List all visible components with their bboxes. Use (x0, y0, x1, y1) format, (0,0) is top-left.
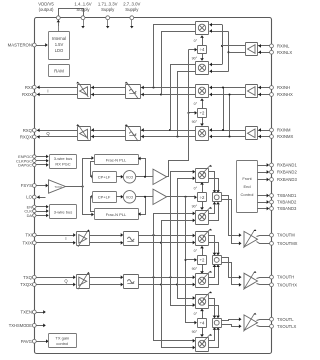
combiner TX C (213, 319, 222, 328)
pin TXOUTLX (270, 324, 297, 329)
svg-text:÷2: ÷2 (200, 258, 205, 263)
wire TX I input lines (36, 233, 76, 244)
node 0deg TX divider B (194, 249, 198, 253)
wire PGC bus arrows (36, 155, 49, 167)
pin RXINMX (270, 134, 294, 139)
svg-text:TXOUTHX: TXOUTHX (277, 282, 297, 287)
pin RXI (25, 85, 36, 90)
amplifier RX VGA Q (76, 124, 90, 140)
wire CP to VCO TX (116, 195, 123, 199)
pin TXBAND2 (270, 200, 297, 205)
svg-text:RXQX: RXQX (20, 135, 32, 140)
svg-text:TX gain: TX gain (55, 336, 69, 341)
pin ENPGC (18, 154, 36, 159)
svg-text:PAVG: PAVG (21, 339, 33, 344)
pin TXOUTL (270, 317, 295, 322)
svg-text:DA: DA (27, 213, 33, 218)
amplifier TX VGA Q (77, 272, 90, 289)
wire LO output stub (37, 195, 46, 199)
svg-text:÷4: ÷4 (200, 47, 205, 52)
pin RXQ (23, 128, 37, 133)
svg-text:Internal: Internal (52, 36, 66, 41)
svg-text:Supply: Supply (125, 7, 139, 12)
pin CLKPGC (16, 158, 36, 163)
node 0deg TX divider A (194, 187, 198, 191)
svg-text:TXQ: TXQ (23, 275, 32, 280)
wire TX divider B to mixer B-Q (200, 264, 204, 274)
filter TX LPF I (124, 232, 139, 246)
pin DA (27, 213, 36, 218)
wire LDO output to VDD/V5 pin (58, 22, 60, 32)
mixer TX A-Q (196, 207, 212, 225)
svg-text:control: control (56, 341, 68, 346)
pin RXBAND1 (270, 163, 298, 168)
svg-text:Front: Front (242, 176, 252, 181)
svg-text:0°: 0° (194, 187, 198, 191)
svg-text:FSYS: FSYS (21, 183, 32, 188)
svg-text:÷2: ÷2 (200, 111, 205, 116)
amplifier LNA RXINL (246, 43, 258, 56)
wire mixer A outputs to combiner A (209, 172, 220, 221)
pin TXQX (20, 282, 36, 287)
wire VCO TX feedback (138, 196, 146, 216)
svg-text:RXINHX: RXINHX (277, 92, 293, 97)
filter RX LPF I (125, 82, 141, 99)
wire TX Q bus (138, 275, 195, 286)
amplifier driver TXOUTM (244, 229, 258, 248)
wire TX Q VGA to LPF (89, 275, 123, 286)
amplifier LNA RXINM (246, 127, 258, 140)
buffer LO TX (153, 189, 167, 204)
svg-text:Frac-N PLL: Frac-N PLL (106, 212, 127, 217)
wire RX mixer A-I outputs to I bus (154, 25, 196, 95)
wire TX LO vertical (184, 197, 197, 325)
svg-text:TXOUTMX: TXOUTMX (277, 241, 298, 246)
svg-text:RXINL: RXINL (277, 44, 290, 49)
wire VCO TX to buffer (136, 196, 153, 198)
svg-text:TXOUTH: TXOUTH (277, 275, 294, 280)
wire RX Q between VGA and filter (90, 128, 125, 138)
svg-text:TXBAND3: TXBAND3 (277, 206, 297, 211)
wire TX baseband vertical to mixer C-I (178, 176, 196, 299)
pin TXQ (23, 275, 36, 280)
svg-text:VCO: VCO (126, 176, 134, 180)
node 90deg TX divider A (192, 204, 198, 208)
svg-text:0°: 0° (194, 102, 198, 106)
synthesizer Frac-N PLL TX (95, 209, 139, 220)
svg-text:CP+LF: CP+LF (98, 194, 111, 199)
wire RXINH pin to LNA (258, 86, 270, 97)
svg-text:RXINLX: RXINLX (277, 50, 292, 55)
svg-text:90°: 90° (192, 56, 198, 60)
svg-text:I: I (65, 236, 66, 241)
svg-text:TXOUTM: TXOUTM (277, 233, 295, 238)
svg-text:TCXO: TCXO (55, 185, 62, 189)
pin RXBAND3 (270, 177, 298, 182)
interface 3-wire bus RX PGC (50, 155, 77, 169)
wire TX divider A to mixer A-I (200, 182, 204, 193)
wire TXEN stub (36, 310, 46, 314)
mixer TX C-I (196, 291, 212, 308)
svg-text:÷2: ÷2 (200, 195, 205, 200)
wire RX I between VGA and filter (90, 86, 125, 97)
pin TXIX (22, 240, 36, 245)
mixer RX A-I (196, 22, 209, 35)
pin LO (26, 195, 36, 200)
amplifier RX VGA I (76, 82, 90, 99)
wire TX I VGA to LPF (89, 233, 123, 244)
svg-text:RX PGC: RX PGC (55, 161, 70, 166)
svg-text:TXIX: TXIX (22, 240, 32, 245)
svg-text:TXQX: TXQX (20, 282, 32, 287)
node 90deg TX divider B (192, 267, 198, 271)
buffer LO RX (153, 169, 167, 184)
controller Front End Control (237, 161, 258, 213)
wire RX LO into divider B (187, 111, 197, 115)
divider TX C div4 (198, 319, 207, 328)
pll CP+LF RX (93, 172, 117, 183)
pin RXINHX (270, 92, 293, 97)
wire mixer B outputs to combiner B (209, 236, 220, 285)
svg-text:(output): (output) (39, 7, 54, 12)
pin RXIX (22, 92, 36, 97)
chip outline (35, 18, 272, 354)
synthesizer Frac-N PLL RX (95, 155, 139, 165)
wire combiner C to driver L (222, 317, 242, 328)
wire TX Q input lines (36, 275, 76, 286)
wire TX divider B to mixer B-I (200, 246, 204, 256)
pin TXBAND1 (270, 193, 297, 198)
pin RXINL (270, 44, 290, 49)
svg-text:Supply: Supply (76, 7, 90, 12)
node 90deg RX divider A (192, 56, 198, 60)
svg-text:RXBAND3: RXBAND3 (277, 177, 297, 182)
amplifier LNA RXINH (246, 85, 258, 98)
pin FSYS (21, 183, 36, 188)
pin RXINLX (270, 50, 293, 55)
node 0deg TX divider C (194, 312, 198, 316)
mixer RX B-I (196, 85, 209, 98)
buffer FSYS TCXO (49, 180, 66, 193)
svg-text:RXINMX: RXINMX (277, 134, 293, 139)
wire LNA L vertical split (221, 25, 230, 72)
oscillator VCO RX (123, 171, 135, 183)
pin TXEN (21, 310, 37, 315)
svg-text:RXI: RXI (25, 85, 32, 90)
svg-text:RXINH: RXINH (277, 85, 290, 90)
wire RX LO into divider A (189, 48, 198, 52)
wire mixer B-I RF inputs (209, 86, 245, 97)
svg-text:0°: 0° (194, 312, 198, 316)
amplifier driver TXOUTH (244, 271, 258, 290)
svg-text:90°: 90° (192, 120, 198, 124)
wire RX LO distribution (167, 50, 189, 177)
pin RXINM (270, 128, 291, 133)
wire MASTERON to LDO (36, 43, 48, 47)
mixer TX C-Q (196, 334, 212, 352)
svg-text:LDO: LDO (55, 48, 64, 53)
pin RXBAND2 (270, 170, 298, 175)
pin EN (27, 204, 36, 209)
svg-text:CP+LF: CP+LF (98, 174, 111, 179)
combiner TX B (213, 256, 222, 265)
divider RX A div4 (198, 46, 207, 54)
wire VCO RX feedback (138, 157, 146, 178)
pin TXBAND3 (270, 206, 297, 211)
svg-text:Frac-N PLL: Frac-N PLL (106, 157, 127, 162)
svg-text:TXI: TXI (25, 233, 32, 238)
svg-text:I: I (47, 88, 48, 93)
power pin 1.4..1.6V supply (74, 2, 91, 29)
wire TXBAND2 (257, 200, 269, 204)
wire RXBAND3 (257, 178, 269, 182)
wire TX divider C to mixer C-Q (200, 327, 204, 337)
wire TX divider A to mixer A-Q (200, 202, 204, 210)
wire TX divider C to mixer C-I (200, 309, 204, 319)
svg-text:RXIX: RXIX (22, 92, 32, 97)
wire RX Q bus to mixers (140, 128, 196, 138)
amplifier TX VGA I (77, 229, 90, 246)
wire RX Q output lines (37, 128, 77, 138)
wire RXINL pin to LNA (258, 44, 270, 54)
wire TXBAND3 (257, 207, 269, 211)
wire RXINM pin to LNA (258, 128, 270, 138)
node 90deg RX divider B (192, 120, 198, 124)
svg-text:VCO: VCO (126, 196, 134, 200)
svg-text:1.5V: 1.5V (55, 42, 64, 47)
svg-text:RXQ: RXQ (23, 128, 33, 133)
wire RXBAND2 (257, 170, 269, 174)
svg-text:LO: LO (26, 195, 32, 200)
regulator U1 Internal 1.5V LDO (49, 32, 70, 60)
wire TXOUTM outputs (257, 236, 270, 244)
wire RX divider B to mixer B-Q (200, 117, 204, 126)
wire TX baseband vertical to mixer C-Q (162, 219, 196, 350)
pin TXHSMODE (9, 323, 36, 328)
svg-text:MASTERON: MASTERON (8, 43, 32, 48)
svg-text:0°: 0° (194, 249, 198, 253)
mixer RX A-Q (196, 62, 209, 75)
wire RX divider A to mixer A-Q (200, 54, 204, 61)
power pin 2.7..3.0V supply (123, 2, 140, 29)
wire mixer C outputs to combiner C (209, 299, 220, 348)
mixer TX B-I (196, 229, 212, 246)
pin CLK (24, 209, 36, 214)
wire TX I bus (138, 234, 195, 245)
wire combiner A to driver M (222, 196, 242, 246)
wire RX I output lines (37, 85, 77, 96)
svg-text:TXBAND2: TXBAND2 (277, 200, 297, 205)
svg-text:RXINM: RXINM (277, 128, 291, 133)
pin TXOUTH (270, 275, 295, 280)
wire RX I bus to mixers (140, 86, 196, 97)
pin TXI (25, 233, 36, 238)
wire FracN RX to CP+LF RX (91, 162, 95, 179)
wire TX baseband vertical to mixer A-I (171, 170, 196, 307)
wire FSYS to buffer (36, 184, 48, 188)
svg-text:TXEN: TXEN (21, 310, 32, 315)
wire FracN TX to CP+LF TX (91, 195, 95, 212)
wire RX divider A to mixer A-I (200, 35, 204, 45)
svg-text:Control: Control (241, 192, 254, 197)
svg-text:TXOUTLX: TXOUTLX (277, 324, 297, 329)
pin MASTERON (8, 43, 37, 48)
svg-text:RXBAND2: RXBAND2 (277, 170, 297, 175)
pin TXOUTHX (270, 282, 298, 287)
wire VCO RX to buffer (136, 176, 153, 178)
memory RAM (49, 65, 70, 77)
wire TX LO line (167, 195, 197, 199)
pin PAVG (21, 339, 37, 344)
divider TX B div2 (198, 256, 207, 265)
svg-text:DAPGC: DAPGC (18, 163, 32, 168)
svg-text:TXOUTL: TXOUTL (277, 317, 294, 322)
wire mixer A-Q RF inputs (209, 63, 228, 73)
pin TXOUTM (270, 233, 296, 238)
wire combiner B to driver H (222, 258, 242, 287)
svg-text:3-wire bus: 3-wire bus (54, 156, 72, 161)
divider TX A div2 (198, 193, 207, 202)
node 90deg TX divider C (192, 330, 198, 334)
svg-text:90°: 90° (192, 267, 198, 271)
svg-text:0°: 0° (194, 39, 198, 43)
svg-text:RXBAND1: RXBAND1 (277, 163, 297, 168)
wire LNA H/M vertical share (222, 86, 231, 137)
wire mixer B-Q RF inputs (209, 128, 245, 138)
node 0deg RX divider A (194, 39, 198, 43)
svg-text:RAM: RAM (54, 69, 64, 74)
pin RXINH (270, 85, 290, 90)
wire RX divider B to mixer B-I (200, 98, 204, 109)
pin DAPGC (18, 163, 36, 168)
pll CP+LF TX (93, 192, 117, 203)
svg-text:÷4: ÷4 (200, 320, 205, 325)
controller TX gain control (49, 334, 77, 348)
mixer RX B-Q (196, 127, 209, 141)
divider RX B div2 (198, 109, 207, 118)
node 0deg RX divider B (194, 102, 198, 106)
pin RXQX (20, 135, 36, 140)
wire TXBAND1 (257, 194, 269, 198)
svg-text:3-wire bus: 3-wire bus (54, 209, 72, 214)
wire PAVG to TX gain control (36, 339, 48, 343)
wire 3-wire bus arrows (36, 205, 49, 217)
wire TXOUTL outputs (257, 320, 270, 327)
svg-text:TXHSMODE: TXHSMODE (9, 323, 32, 328)
filter TX LPF Q (124, 275, 139, 289)
wire CP to VCO RX (116, 175, 123, 179)
power pin VDD/V5 (output) (38, 2, 83, 26)
mixer TX A-I (196, 165, 212, 183)
wire mixer A-I RF inputs (209, 23, 228, 33)
wire TX baseband vertical to mixer A-Q (154, 212, 196, 343)
wire TXOUTH outputs (257, 278, 270, 285)
mixer TX B-Q (196, 271, 212, 288)
pin TXOUTMX (270, 241, 298, 246)
wire RX mixer A-Q outputs to Q bus (171, 65, 196, 137)
svg-text:90°: 90° (192, 204, 198, 208)
oscillator VCO TX (123, 191, 135, 203)
filter RX LPF Q (125, 124, 141, 141)
interface 3-wire bus (50, 205, 77, 219)
wire LNA L outputs (222, 46, 245, 53)
amplifier driver TXOUTL (244, 313, 258, 332)
wire FSYS reference distribution (66, 156, 95, 216)
combiner TX A (213, 193, 222, 202)
wire RXBAND1 (257, 163, 269, 167)
svg-text:90°: 90° (192, 330, 198, 334)
svg-text:Supply: Supply (101, 7, 115, 12)
svg-text:End: End (243, 184, 250, 189)
power pin 1.71..3.3V supply (98, 2, 118, 29)
wire TXHSMODE stub (36, 324, 46, 328)
svg-text:TXBAND1: TXBAND1 (277, 193, 297, 198)
